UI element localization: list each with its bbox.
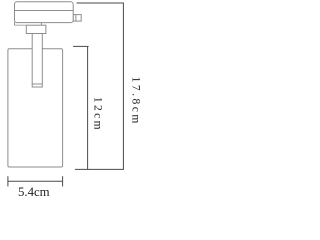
svg-text:5.4cm: 5.4cm [18, 185, 50, 199]
svg-text:12cm: 12cm [91, 97, 103, 132]
svg-text:17.8cm: 17.8cm [130, 77, 142, 126]
